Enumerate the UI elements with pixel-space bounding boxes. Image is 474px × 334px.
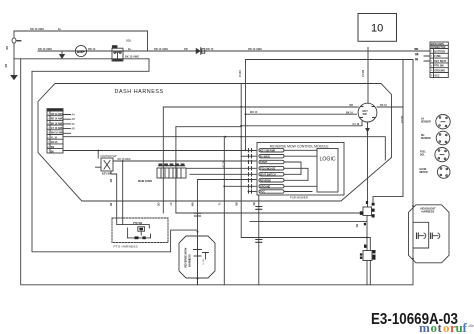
wire outer boundary x=20.7 / y=284.8 / x=413 / y=59.5	[21, 59, 413, 285]
svg-text:AMP: AMP	[77, 50, 86, 54]
label x=116.7 wire	[109, 203, 111, 207]
svg-text:ACC: ACC	[434, 74, 439, 77]
wire module row5	[190, 173, 256, 175]
module input row 4	[259, 167, 308, 181]
wire y=58.8 bus	[14, 58, 149, 60]
dash left pin table	[47, 109, 64, 154]
disconnect pair x=175.9	[169, 203, 171, 207]
ammeter circle	[75, 45, 86, 56]
svg-text:OR 16: OR 16	[238, 70, 241, 78]
wire x=163.3 descending from y=107	[162, 107, 164, 213]
svg-text:GY: GY	[169, 203, 171, 207]
headlight harness octagon	[409, 205, 450, 263]
wire x=241.2 vertical to relay2	[240, 84, 370, 251]
svg-text:BK: BK	[109, 179, 112, 183]
svg-text:METER: METER	[420, 172, 428, 174]
wire x=197.5 corner to module row6 and down	[198, 180, 257, 285]
svg-text:YL 16: YL 16	[51, 137, 58, 139]
svg-text:10: 10	[371, 23, 383, 35]
svg-text:BK 16 AWG: BK 16 AWG	[51, 122, 64, 125]
battery column with fuse	[12, 31, 21, 74]
relay 2	[360, 250, 376, 261]
svg-text:.de: .de	[468, 323, 474, 328]
wire left outline x=32 down to y=251.8 to reverse harness	[32, 71, 198, 252]
svg-text:HARNESS: HARNESS	[422, 210, 435, 214]
svg-text:BK: BK	[4, 64, 8, 68]
pto switch component	[117, 218, 151, 239]
svg-text:IGNITION SW: IGNITION SW	[101, 155, 117, 158]
headlight wiring loop	[412, 205, 429, 260]
svg-text:BK: BK	[109, 203, 111, 207]
label connector 4	[420, 169, 428, 174]
svg-text:RD 10: RD 10	[88, 47, 96, 51]
wire x=403 down to relay area	[373, 60, 403, 203]
svg-text:o: o	[443, 320, 450, 334]
svg-text:OR: OR	[415, 55, 419, 57]
wire circle bottom lower-left	[241, 122, 362, 126]
svg-text:KEY SW B: KEY SW B	[434, 60, 446, 63]
disconnect pair x=224.3	[218, 203, 220, 207]
svg-text:MAIN CONN: MAIN CONN	[138, 180, 152, 183]
svg-text:RD 16 AWG: RD 16 AWG	[118, 158, 131, 161]
svg-text:REVERSE MOW: REVERSE MOW	[184, 247, 188, 267]
svg-text:RD 10 AWG: RD 10 AWG	[248, 47, 262, 51]
svg-text:SOL: SOL	[420, 155, 425, 157]
pto harness dashed box	[112, 218, 168, 243]
svg-text:HARNESS: HARNESS	[188, 254, 192, 267]
svg-text:B+ MAIN: B+ MAIN	[260, 155, 270, 158]
round connector 2	[436, 131, 450, 145]
round connector 1	[436, 115, 450, 129]
svg-text:BK 16: BK 16	[380, 104, 387, 107]
svg-text:AD: AD	[72, 128, 76, 131]
disconnect pair x=197.5	[191, 203, 201, 217]
top-right connector table	[415, 42, 448, 78]
svg-text:GY 16 AWG: GY 16 AWG	[51, 127, 64, 130]
svg-text:OR 16 AWG: OR 16 AWG	[51, 113, 64, 116]
module input row 8	[259, 190, 312, 194]
wire relay2 bottom to boundary	[367, 261, 370, 285]
svg-text:PTO HARNESS: PTO HARNESS	[114, 245, 138, 249]
label connector 2	[421, 135, 431, 140]
module input row 3	[259, 160, 301, 174]
disconnect pair x=241.2	[234, 203, 236, 207]
wire ignition right to module row3	[113, 158, 256, 162]
wire pin table row9 to module row1	[63, 150, 256, 152]
disconnect pair x=258.8	[252, 203, 262, 210]
wire label marks top feed	[4, 27, 62, 68]
svg-text:ACC: ACC	[260, 191, 265, 194]
label connector 1	[421, 119, 431, 124]
module input row 6	[259, 179, 308, 183]
box 10	[358, 14, 397, 42]
module input row 1	[259, 149, 317, 153]
svg-text:DASH HARNESS: DASH HARNESS	[115, 89, 164, 95]
svg-text:WH: WH	[191, 203, 193, 207]
label connector 3	[420, 152, 427, 157]
svg-text:SENSOR: SENSOR	[421, 122, 431, 124]
starter solenoid box	[112, 46, 123, 61]
svg-text:RD 10: RD 10	[206, 47, 214, 51]
svg-text:m: m	[419, 320, 430, 334]
svg-text:AB: AB	[72, 118, 76, 121]
svg-text:LH: LH	[421, 119, 424, 121]
svg-text:RD 10 AWG: RD 10 AWG	[30, 27, 44, 31]
reverse switch symbol inside octagon	[194, 231, 209, 285]
svg-text:RD: RD	[5, 46, 9, 50]
wire relay1 left pin	[176, 212, 360, 214]
wire x=176.7 from y=126.7 down through connector	[176, 127, 241, 213]
dash harness polygon	[38, 84, 392, 202]
wire from circle up crossing y=51	[367, 48, 369, 104]
wire below relay1	[250, 221, 367, 225]
wire ignition branch x=122.7 down	[122, 161, 124, 218]
svg-text:RD: RD	[414, 47, 418, 51]
wire label marks verticals	[221, 70, 403, 228]
svg-text:AC: AC	[72, 123, 76, 126]
svg-text:N SW: N SW	[203, 258, 205, 265]
svg-text:AA: AA	[72, 114, 76, 117]
svg-text:BN: BN	[51, 147, 55, 149]
dash 10-pin connector	[138, 164, 186, 183]
main pin connector circle	[358, 103, 377, 122]
wire circle bottom down to relay with arrow marks	[366, 122, 369, 207]
ground symbol battery	[11, 74, 17, 80]
svg-text:o: o	[431, 320, 438, 334]
svg-text:B+: B+	[128, 47, 132, 51]
svg-text:FUEL: FUEL	[420, 152, 427, 154]
inline connector on main wire	[196, 48, 205, 54]
svg-text:CONNECTOR: CONNECTOR	[431, 47, 446, 49]
ground arrow on main wire	[60, 51, 65, 58]
svg-text:PTO ENGAGE: PTO ENGAGE	[260, 167, 276, 170]
svg-text:HOUR: HOUR	[420, 169, 427, 171]
disconnect pair x=163.3	[157, 203, 159, 207]
round connector 3	[435, 148, 449, 162]
svg-text:MAIN HARN: MAIN HARN	[431, 43, 444, 46]
svg-text:BU: BU	[51, 152, 55, 154]
reverse mow harness octagon	[179, 236, 215, 278]
label REVERSE MOW HARNESS	[184, 247, 192, 267]
wire module row8 stub	[248, 191, 256, 193]
svg-text:SEAT SWITCH: SEAT SWITCH	[260, 173, 276, 176]
wire circle right side to boundary	[377, 106, 403, 108]
svg-text:PTO SW: PTO SW	[133, 223, 143, 225]
wire U-turn x=149 to y=71.3	[32, 59, 149, 72]
svg-text:GN 16: GN 16	[51, 142, 58, 144]
module row inline connectors	[249, 149, 252, 193]
round connector 4	[437, 166, 450, 179]
svg-text:RD 10 AWG: RD 10 AWG	[38, 47, 52, 51]
wire into circle left upper	[163, 106, 358, 108]
svg-text:RD 16 AWG: RD 16 AWG	[51, 118, 64, 121]
svg-text:BN: BN	[234, 203, 236, 207]
wire module row4	[186, 167, 256, 169]
svg-text:40A: 40A	[17, 39, 22, 43]
svg-text:BATTERY: BATTERY	[434, 50, 445, 53]
svg-text:OR: OR	[157, 203, 159, 207]
svg-text:REVERSE MOW CONTROL MODULE: REVERSE MOW CONTROL MODULE	[270, 144, 329, 148]
svg-text:YL 16: YL 16	[221, 161, 224, 168]
svg-text:BK 16: BK 16	[346, 112, 353, 115]
svg-text:FOR MOWER: FOR MOWER	[290, 195, 308, 199]
wire battery top feed y=31	[14, 31, 148, 51]
svg-text:PTO SW: PTO SW	[434, 65, 444, 68]
svg-text:SW: SW	[363, 112, 368, 116]
svg-text:RD: RD	[184, 47, 188, 51]
wire relay1 to relay2	[364, 216, 368, 251]
wire label marks main wire	[38, 39, 419, 62]
reverse mow control module box	[257, 143, 344, 196]
ignition switch	[96, 151, 117, 176]
wire x=258.8 from module bottom down	[258, 195, 260, 285]
svg-text:KEY SW PWR: KEY SW PWR	[260, 150, 275, 152]
svg-text:FUSE: FUSE	[434, 55, 441, 58]
module input row 5	[259, 173, 301, 177]
svg-text:BK: BK	[415, 60, 419, 62]
svg-text:REVERSE: REVERSE	[260, 180, 271, 182]
svg-text:t: t	[438, 320, 443, 334]
svg-text:B+: B+	[58, 27, 62, 31]
svg-text:RD: RD	[350, 104, 354, 107]
svg-text:BK 10 AWG: BK 10 AWG	[125, 55, 139, 59]
module input row 2	[259, 155, 317, 159]
svg-text:RD 16: RD 16	[361, 70, 364, 77]
svg-text:BK: BK	[355, 224, 358, 228]
headlight bulb right	[431, 233, 440, 239]
wire pin table row6 long to x=385	[63, 136, 385, 160]
disconnect pair x=258.8 lower	[256, 240, 262, 243]
svg-text:SOL: SOL	[126, 39, 132, 43]
svg-text:GROUND: GROUND	[434, 70, 445, 73]
wire ignition bottom pin down	[109, 171, 117, 218]
wire x=224.3 vertical	[223, 137, 256, 285]
svg-text:START: START	[260, 161, 268, 164]
wire x=245.5 down from y=59.5 turning to pin connector circle	[245, 60, 357, 152]
svg-text:SENSOR: SENSOR	[421, 138, 431, 140]
svg-text:f: f	[463, 320, 468, 334]
svg-text:WH 16: WH 16	[250, 111, 258, 114]
module input row 7	[259, 185, 317, 189]
svg-text:GY 16: GY 16	[353, 123, 360, 126]
svg-text:BK: BK	[252, 203, 254, 207]
motoruf watermark	[419, 320, 474, 334]
svg-text:GROUND: GROUND	[260, 186, 271, 188]
relay 1	[360, 201, 375, 218]
svg-text:RH: RH	[421, 135, 425, 137]
svg-text:WH 16 AWG: WH 16 AWG	[51, 132, 64, 135]
svg-text:RD 10 AWG: RD 10 AWG	[154, 47, 168, 51]
headlight bulb left	[417, 233, 426, 239]
module LOGIC box	[317, 149, 338, 193]
svg-text:RD 16: RD 16	[400, 116, 403, 123]
svg-text:LOGIC: LOGIC	[320, 157, 336, 163]
pin table right stubs	[63, 114, 75, 134]
main wire y=51	[38, 50, 430, 52]
